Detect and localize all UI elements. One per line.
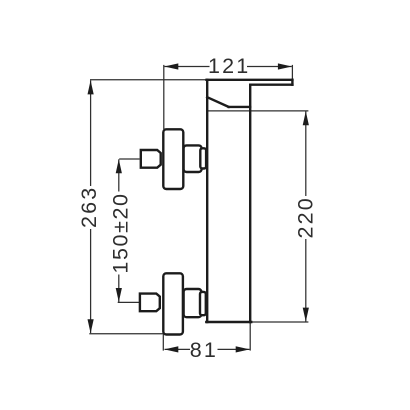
svg-text:220: 220: [293, 196, 317, 238]
svg-text:263: 263: [77, 186, 101, 228]
svg-text:150±20: 150±20: [109, 192, 133, 273]
svg-text:121: 121: [208, 54, 250, 78]
svg-text:81: 81: [190, 338, 218, 362]
